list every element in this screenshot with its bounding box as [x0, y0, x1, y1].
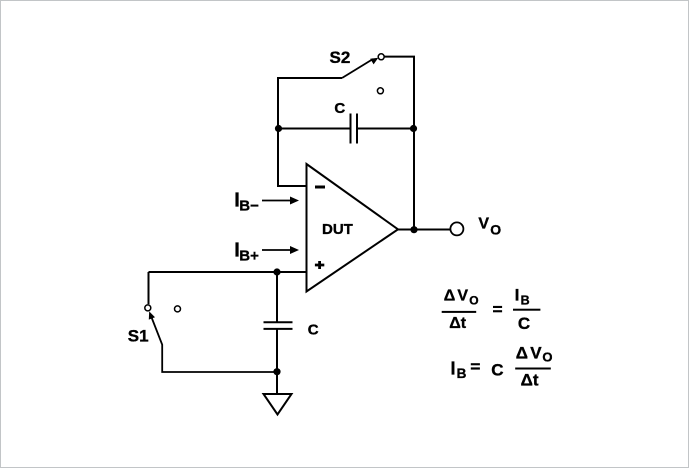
svg-text:V: V — [530, 344, 542, 363]
svg-text:C: C — [334, 100, 345, 117]
svg-text:S1: S1 — [128, 327, 149, 346]
svg-text:I: I — [515, 287, 520, 305]
svg-text:O: O — [490, 222, 501, 238]
svg-text:B−: B− — [239, 198, 259, 215]
svg-text:C: C — [518, 314, 530, 333]
svg-text:S2: S2 — [330, 48, 351, 67]
svg-text:Δ: Δ — [444, 288, 456, 305]
svg-text:B: B — [457, 366, 467, 381]
svg-text:C: C — [491, 361, 503, 380]
svg-text:I: I — [451, 359, 456, 379]
svg-text:B: B — [521, 294, 530, 308]
svg-text:Δt: Δt — [521, 371, 539, 390]
svg-text:V: V — [457, 288, 468, 305]
svg-text:O: O — [542, 349, 552, 364]
svg-text:Δ: Δ — [516, 344, 528, 363]
svg-text:V: V — [478, 216, 489, 233]
svg-text:DUT: DUT — [322, 221, 353, 238]
svg-text:Δt: Δt — [449, 315, 467, 332]
svg-text:O: O — [469, 294, 478, 308]
svg-text:C: C — [308, 322, 319, 339]
svg-text:B+: B+ — [239, 248, 259, 265]
